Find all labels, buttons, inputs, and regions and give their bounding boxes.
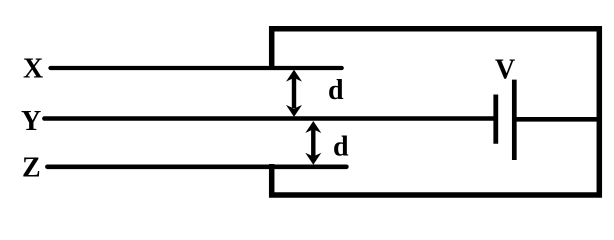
svg-text:d: d [328, 75, 344, 106]
plate Y (wire to battery) [44, 116, 493, 121]
battery positive plate (tall) [512, 80, 517, 160]
battery negative plate (short) [493, 95, 498, 144]
spacing arrow d (Y-Z) [305, 121, 321, 165]
svg-text:d: d [333, 131, 349, 162]
spacing arrow d (X-Y) [286, 70, 302, 117]
svg-text:Y: Y [21, 106, 41, 137]
wire battery to right edge [517, 117, 600, 122]
svg-text:X: X [23, 53, 43, 84]
plate Z (wire) [47, 165, 346, 170]
svg-text:Z: Z [22, 153, 41, 184]
outer conductor loop connecting X and Z [272, 29, 600, 195]
plate X (wire) [51, 66, 342, 70]
